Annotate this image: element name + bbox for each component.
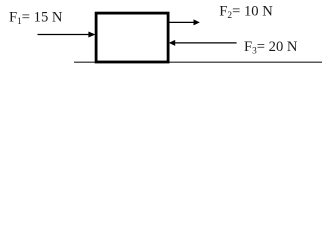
force arrow F2 (points right out of upper-right of block): [169, 19, 199, 25]
svg-text:F3= 20 N: F3= 20 N: [244, 39, 298, 57]
ground/surface line: [74, 61, 322, 63]
svg-text:F2= 10 N: F2= 10 N: [219, 3, 273, 21]
svg-text:F1= 15 N: F1= 15 N: [9, 9, 63, 27]
force arrow F3 (points left into right side of block): [169, 40, 237, 46]
block (rectangle on surface): [96, 13, 168, 62]
force arrow F1 (points right into left side of block): [38, 32, 96, 38]
